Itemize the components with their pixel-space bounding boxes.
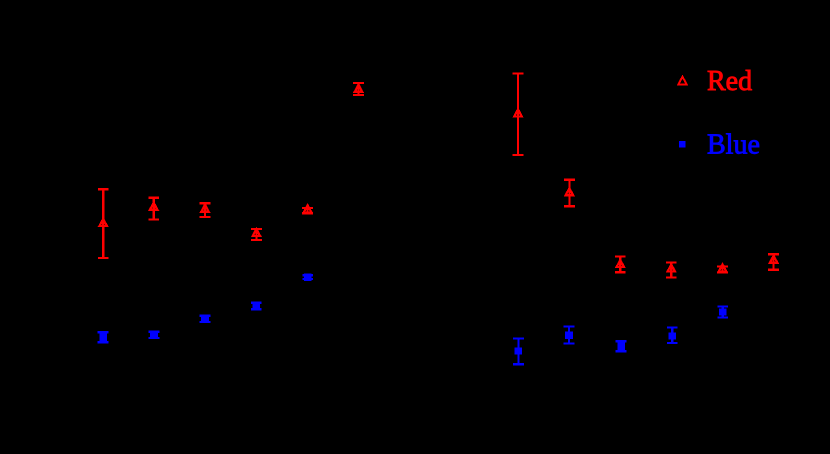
blue point B3 marker (filled square) — [617, 343, 625, 350]
red point R6 marker (open triangle) — [770, 256, 778, 263]
red point L5 marker (open triangle) — [304, 205, 312, 212]
blue data series (filled squares with error bars) — [98, 274, 729, 365]
red point L4 error bar — [251, 229, 262, 240]
red point L2 error bar — [148, 198, 159, 220]
red point R4 marker (open triangle) — [668, 265, 676, 272]
blue point l5 error bar — [302, 275, 313, 279]
blue point l4 marker (filled square) — [253, 302, 261, 309]
red point R1 error bar — [513, 74, 524, 156]
blue point l2 marker (filled square) — [150, 331, 158, 338]
svg-text:Blue: Blue — [707, 130, 760, 161]
blue point B2 marker (filled square) — [565, 332, 573, 339]
red point R2 error bar — [564, 180, 575, 206]
red point R4 error bar — [666, 263, 677, 278]
red point L1 error bar — [98, 189, 109, 258]
red data series (open triangles with error bars) — [98, 74, 779, 278]
blue point l5 marker (filled square) — [304, 274, 312, 281]
blue point B4 marker (filled square) — [668, 332, 676, 339]
blue point B4 error bar — [667, 328, 678, 344]
blue point B2 error bar — [564, 327, 575, 344]
red point L6 error bar — [353, 83, 364, 95]
red point R6 error bar — [768, 254, 779, 270]
red point R2 marker (open triangle) — [566, 188, 574, 195]
blue point l1 error bar — [98, 332, 109, 342]
red point L3 marker (open triangle) — [201, 205, 209, 212]
legend marker: filled blue square — [679, 141, 686, 148]
blue point B1 error bar — [513, 339, 524, 365]
red point R1 marker (open triangle) — [514, 109, 522, 116]
red point L1 marker (open triangle) — [99, 219, 107, 226]
svg-text:Red: Red — [707, 66, 752, 97]
red point R3 error bar — [615, 256, 626, 272]
legend marker: open red triangle — [678, 77, 686, 85]
red point L4 marker (open triangle) — [253, 229, 261, 236]
blue point B3 error bar — [616, 341, 627, 351]
red point L6 marker (open triangle) — [355, 85, 363, 92]
blue point l3 marker (filled square) — [201, 315, 209, 322]
blue point B1 marker (filled square) — [515, 347, 523, 354]
blue point l2 error bar — [149, 332, 160, 338]
red point R5 error bar — [717, 266, 728, 272]
red point L2 marker (open triangle) — [150, 203, 158, 210]
blue point l4 error bar — [251, 303, 262, 310]
red point R5 marker (open triangle) — [719, 264, 727, 271]
red point L3 error bar — [200, 203, 211, 217]
blue point l1 marker (filled square) — [99, 334, 107, 341]
red point L5 error bar — [302, 208, 313, 213]
blue point B5 marker (filled square) — [719, 308, 727, 315]
blue point l3 error bar — [200, 316, 211, 322]
blue point B5 error bar — [717, 307, 728, 318]
red point R3 marker (open triangle) — [617, 260, 625, 267]
